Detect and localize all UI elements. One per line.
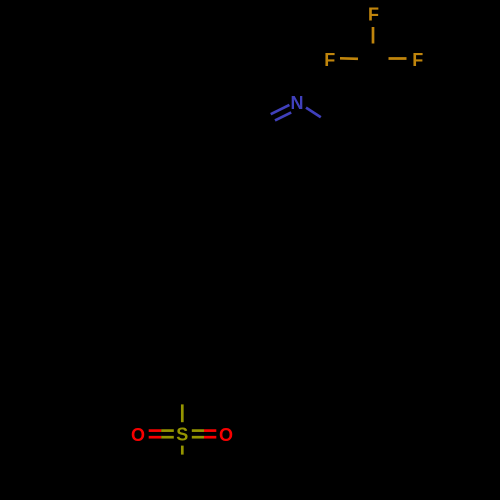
- svg-text:N: N: [291, 93, 304, 113]
- svg-text:S: S: [176, 425, 188, 445]
- svg-text:O: O: [131, 425, 145, 445]
- svg-text:F: F: [324, 50, 335, 70]
- svg-text:O: O: [219, 425, 233, 445]
- svg-text:F: F: [368, 5, 379, 25]
- svg-text:F: F: [412, 50, 423, 70]
